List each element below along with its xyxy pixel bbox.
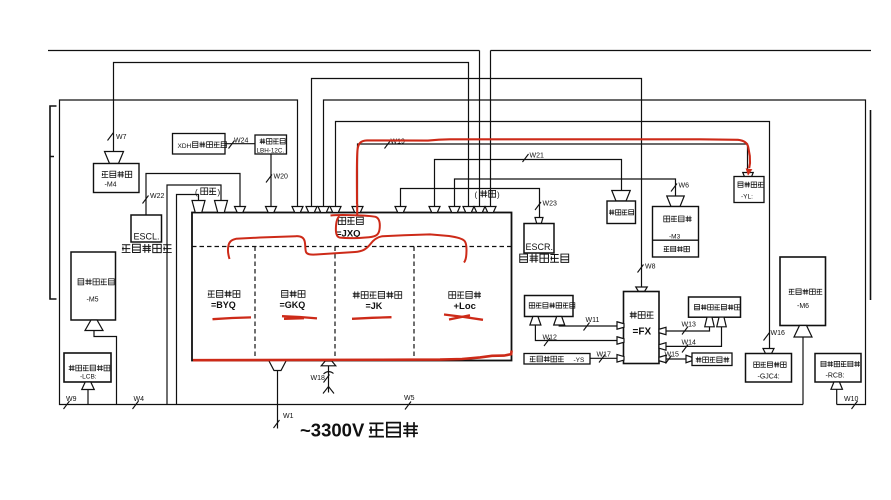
- solenoid valve box right: [689, 297, 741, 317]
- connector funnel crusher motor: [105, 152, 124, 164]
- wire W1 main cable drop: [277, 371, 279, 429]
- svg-text:W6: W6: [679, 183, 690, 190]
- svg-text:-M5: -M5: [87, 297, 99, 304]
- connector arrow FX right 3: [659, 355, 666, 363]
- connector funnel side-mount right: [192, 201, 205, 213]
- connector arrow FX left 3: [617, 355, 624, 363]
- svg-text:+Loc: +Loc: [454, 301, 476, 312]
- svg-text:W20: W20: [274, 174, 289, 181]
- svg-text:-M3: -M3: [669, 234, 681, 241]
- connector arrow pilot valve: [686, 355, 692, 363]
- svg-text:.: .: [220, 143, 222, 150]
- connector arrow FX right 1: [659, 327, 666, 335]
- wire W18 stub with arrow: [328, 366, 330, 393]
- svg-text:W17: W17: [597, 352, 612, 359]
- wire right traction motor M6 drop: [802, 337, 804, 405]
- svg-text:-GJC4:: -GJC4:: [758, 374, 780, 381]
- wire W7 crusher motor cable: [114, 63, 469, 207]
- brake valve box YS: [524, 354, 590, 365]
- svg-text:=FX: =FX: [633, 327, 652, 338]
- label 右传感中心: [520, 254, 569, 263]
- pressure node YL box: [734, 177, 764, 203]
- methane detector box GJC4: [746, 354, 792, 383]
- right bracket: [870, 110, 872, 300]
- sensor center box ESCL: [131, 215, 162, 242]
- label 接线腔: [338, 217, 363, 224]
- label 压力节点: [738, 182, 764, 188]
- red arrowhead at pressure node: [746, 168, 753, 175]
- svg-text:W22: W22: [150, 193, 165, 200]
- electric control box body: [192, 213, 512, 361]
- svg-text:=JK: =JK: [366, 301, 383, 311]
- compartment divider dashed vertical 1: [254, 247, 256, 361]
- svg-text:W5: W5: [404, 395, 415, 402]
- svg-text:=BYQ: =BYQ: [211, 300, 236, 310]
- connector funnel right valve left leg: [705, 317, 715, 327]
- red underline GKQ: [282, 316, 317, 319]
- svg-text:W21: W21: [530, 153, 545, 160]
- connector funnel FX: [636, 287, 648, 292]
- red drop through funnel W19: [356, 204, 358, 215]
- svg-text:-YL:: -YL:: [741, 194, 753, 201]
- wire side-mount hook right: [177, 195, 199, 405]
- wire W21 water pressure node cable: [435, 160, 622, 207]
- svg-text:~3300V: ~3300V: [300, 420, 365, 441]
- connector funnel W18: [321, 361, 336, 366]
- label 高压腔: [282, 290, 305, 297]
- svg-text:): ): [218, 188, 221, 197]
- motor M3 box: [653, 207, 699, 258]
- pilot valve box: [692, 353, 732, 366]
- wire W14 FX to right valve right leg: [666, 327, 722, 346]
- svg-text:W23: W23: [543, 201, 558, 208]
- svg-text:W7: W7: [116, 134, 127, 141]
- wire W11 solenoid valve right leg: [559, 325, 617, 326]
- alarm signal light box XDH: [173, 134, 226, 155]
- label 左牵引电机: [78, 279, 114, 286]
- svg-text:ESCR.: ESCR.: [526, 242, 554, 252]
- label 破碎电机: [102, 171, 132, 178]
- red circle around 接线腔: [331, 215, 380, 238]
- label 分线盒: [630, 311, 654, 318]
- connector funnel valve right leg: [554, 317, 565, 326]
- connector funnel W6 on box top: [449, 207, 460, 213]
- red squiggle cable routing inside box: [228, 234, 467, 262]
- wire W12 solenoid valve left leg: [535, 325, 617, 341]
- wire W2 top haulage cable left: [48, 51, 480, 207]
- svg-text:-M4: -M4: [105, 182, 117, 189]
- svg-text:XDH: XDH: [178, 143, 192, 150]
- wire W8 junction-box drop cable: [312, 79, 642, 288]
- head control station RCB box: [815, 354, 861, 383]
- wire W23 right sensor center cable: [401, 189, 540, 218]
- motor M4 box: [94, 164, 140, 193]
- connector funnel W16 on box top: [330, 207, 341, 213]
- wire W15 FX to pilot valve: [666, 358, 686, 360]
- svg-text:-LCB:: -LCB:: [80, 374, 97, 381]
- connector funnel loop-A on box top: [292, 207, 303, 213]
- label 计算机控制腔: [353, 291, 402, 298]
- connector funnel LCB: [82, 382, 95, 390]
- traction motor M6 box: [780, 257, 826, 326]
- wire W13 FX to right valve left leg: [666, 327, 710, 331]
- label 右端头控制站: [821, 361, 860, 367]
- red cable W19 highlight to pressure node: [357, 139, 750, 204]
- svg-text:W24: W24: [234, 138, 249, 145]
- connector funnel W2 on box top: [474, 207, 485, 213]
- svg-text:(: (: [475, 191, 478, 200]
- connector arrow FX right 2: [659, 343, 666, 351]
- svg-text:W9: W9: [66, 396, 77, 403]
- wire W6 height-adjust motor cable: [455, 179, 676, 207]
- left bracket: [50, 106, 57, 299]
- connector funnel W8 on box top: [306, 207, 317, 213]
- compartment divider dashed vertical 2: [334, 247, 336, 361]
- wire W24 alarm light to speaker: [225, 143, 255, 145]
- wire W16 methane detector cable: [336, 122, 770, 349]
- connector funnel W10 on box top: [318, 207, 329, 213]
- connector funnel right valve right leg: [717, 317, 727, 327]
- label 水压节点: [609, 210, 634, 216]
- traction motor M5 box: [71, 252, 116, 320]
- svg-text:W16: W16: [771, 330, 786, 337]
- svg-text:W1: W1: [283, 413, 294, 420]
- wire left traction motor M5 drop: [94, 331, 117, 405]
- wire W22 left sensor center cable: [146, 174, 240, 216]
- solenoid valve box left: [525, 296, 574, 317]
- connector arrow FX left 2: [617, 337, 624, 345]
- svg-text:(: (: [195, 188, 198, 197]
- connector funnel W3 on box top: [485, 207, 496, 213]
- connector funnel valve left leg: [530, 317, 541, 326]
- svg-text:ESCL.: ESCL.: [134, 232, 160, 242]
- wire left outer loop to node A: [60, 100, 804, 405]
- svg-text:LBH-12C.: LBH-12C.: [257, 148, 285, 155]
- svg-text:W8: W8: [645, 264, 656, 271]
- svg-text:W14: W14: [682, 340, 697, 347]
- red underline JK: [352, 317, 392, 319]
- connector funnel side-mount left: [215, 201, 228, 213]
- svg-text:-RCB:: -RCB:: [826, 373, 845, 380]
- label 托臂升降电磁阀 right: [694, 304, 740, 310]
- red underline Loc: [444, 315, 483, 320]
- connector funnel YL: [743, 173, 754, 179]
- label 左端头控制站: [69, 365, 110, 371]
- connector funnel M5: [85, 320, 103, 331]
- red underline BYQ: [213, 317, 252, 319]
- wire left head control station drop: [87, 390, 89, 405]
- wire W17 brake valve to FX: [590, 357, 617, 359]
- svg-text:-M6: -M6: [797, 303, 809, 310]
- svg-text:W15: W15: [665, 352, 680, 359]
- connector funnel W20 on box top: [266, 207, 277, 213]
- compartment divider dashed horizontal: [192, 246, 512, 248]
- svg-text:=GKQ: =GKQ: [280, 300, 306, 310]
- head control station LCB box: [64, 353, 111, 382]
- svg-text:W13: W13: [682, 322, 697, 329]
- label 先导电磁阀: [696, 357, 730, 363]
- label 右牵引电机: [789, 289, 823, 295]
- connector funnel ESCR: [535, 218, 543, 224]
- sensor center box ESCR: [524, 224, 554, 254]
- red bottom edge highlight: [193, 351, 512, 361]
- label 制动电磁阀: [530, 356, 564, 362]
- connector funnel W22 on box top: [235, 207, 246, 213]
- wire W10 loop right control station: [324, 100, 866, 405]
- label 语音喇叭: [260, 138, 286, 144]
- wire side-mount hook left: [167, 185, 221, 405]
- label 甲烷检测仪: [754, 362, 786, 368]
- connector funnel M3: [667, 196, 685, 207]
- wire right head control station drop: [836, 389, 838, 404]
- water pressure node box: [607, 201, 636, 224]
- connector funnel RCB: [831, 382, 843, 389]
- label 变压器腔: [208, 290, 240, 297]
- connector funnel W21 on box top: [429, 207, 440, 213]
- connector arrow FX left 1: [617, 322, 624, 330]
- junction box FX: [624, 292, 660, 364]
- connector funnel W19 on box top: [352, 207, 363, 213]
- connector funnel W7 on box top: [463, 207, 474, 213]
- wire W19 pressure node cable (black): [358, 144, 748, 207]
- connector funnel W1 main cable: [269, 361, 287, 371]
- wire W3 top haulage cable right: [491, 51, 872, 207]
- speaker box LBH-12C: [255, 135, 287, 154]
- svg-text:W11: W11: [586, 317, 600, 324]
- connector funnel M6: [794, 326, 812, 338]
- svg-text:W4: W4: [134, 396, 145, 403]
- label 托臂升降电磁阀: [529, 303, 575, 309]
- svg-text:): ): [497, 191, 500, 200]
- compartment divider dashed vertical 3: [413, 247, 415, 361]
- wire W20 speaker cable: [270, 154, 272, 207]
- label 变频器腔: [449, 291, 481, 298]
- connector funnel GJC4: [763, 349, 774, 354]
- connector funnel water pressure node: [612, 191, 631, 202]
- label 调高泵箱: [664, 246, 690, 252]
- label 调高电机: [664, 216, 692, 222]
- svg-text:-YS: -YS: [574, 357, 586, 364]
- svg-text:W18: W18: [311, 375, 326, 382]
- label 左传感中心: [122, 244, 172, 253]
- connector funnel W23 on box top: [395, 207, 406, 213]
